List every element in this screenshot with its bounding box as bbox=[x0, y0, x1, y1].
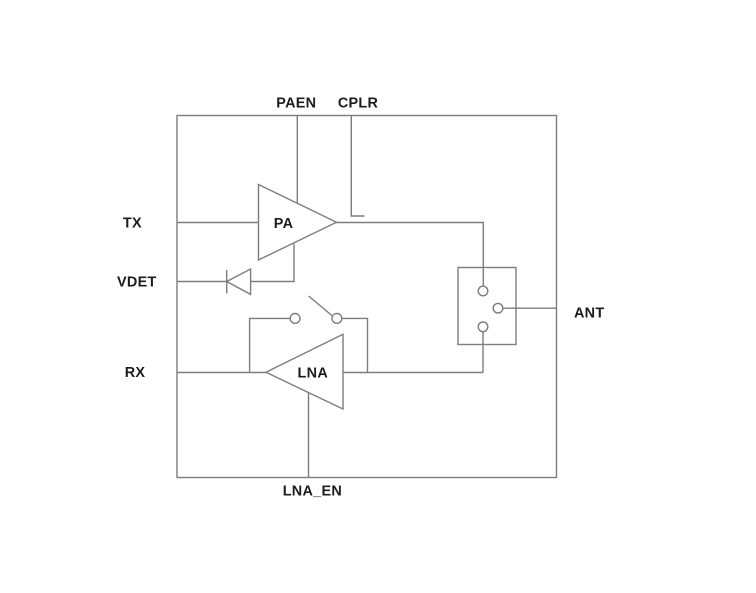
svg-text:RX: RX bbox=[125, 365, 146, 381]
svg-text:TX: TX bbox=[123, 215, 142, 231]
svg-text:LNA_EN: LNA_EN bbox=[283, 484, 342, 500]
svg-text:PAEN: PAEN bbox=[276, 96, 316, 112]
svg-text:LNA: LNA bbox=[298, 365, 329, 381]
svg-text:ANT: ANT bbox=[574, 305, 604, 321]
svg-text:PA: PA bbox=[274, 216, 294, 232]
svg-text:CPLR: CPLR bbox=[338, 96, 379, 112]
svg-text:VDET: VDET bbox=[117, 275, 157, 291]
